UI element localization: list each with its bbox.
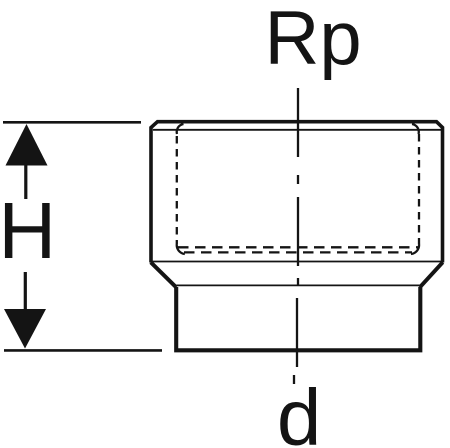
thread runout hook bottom-right bbox=[411, 244, 419, 254]
dimension line upper segment bbox=[24, 164, 27, 199]
shoulder lower thin line bbox=[177, 284, 420, 286]
centerline (vertical dash-dot axis) bbox=[294, 88, 298, 384]
thread runout hook top-left bbox=[177, 124, 184, 134]
dimension arrow up bbox=[6, 124, 48, 166]
taper diagonal right bbox=[420, 262, 443, 287]
thread dashed vertical left bbox=[176, 136, 178, 244]
fitting outer outline: upper socket with chamfered corners bbox=[151, 122, 443, 263]
thread bottom dashed line 2 bbox=[184, 251, 412, 253]
dimension arrow down bbox=[4, 309, 46, 349]
thread bottom dashed line 1 bbox=[178, 246, 418, 248]
extension line bottom (H dimension) bbox=[4, 349, 162, 352]
thread runout hook bottom-left bbox=[177, 244, 185, 254]
inner top thin line (socket mouth) bbox=[153, 129, 441, 131]
shoulder upper thin line bbox=[151, 261, 443, 263]
svg-text:H: H bbox=[0, 186, 56, 275]
thread dashed vertical right bbox=[418, 134, 420, 244]
thread runout hook top-right bbox=[412, 124, 419, 134]
svg-text:Rp: Rp bbox=[265, 0, 362, 81]
dimension line lower segment bbox=[24, 272, 27, 310]
extension line top (H dimension) bbox=[3, 121, 141, 124]
lower spigot outline bbox=[176, 287, 420, 350]
svg-text:d: d bbox=[277, 373, 322, 448]
taper diagonal left bbox=[151, 262, 176, 287]
